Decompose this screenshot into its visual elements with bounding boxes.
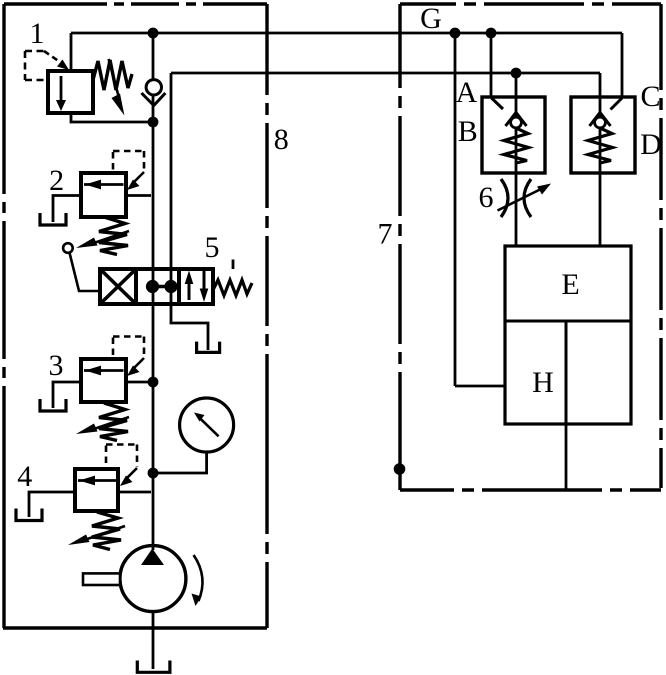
ball of valve D [595, 117, 606, 128]
wire: drop bus to pilot box A [490, 33, 493, 97]
pilot valve box A/B [482, 97, 545, 173]
reducing valve 4 [16, 445, 151, 550]
svg-text:6: 6 [479, 181, 494, 214]
svg-text:A: A [456, 76, 478, 109]
junction: top bus / H feed [451, 29, 459, 37]
wire: valve D outlet to block E [599, 173, 602, 246]
wire: main pressure line [152, 33, 155, 550]
wire: valve B outlet to throttle and block E [515, 173, 518, 246]
svg-text:3: 3 [49, 349, 64, 382]
svg-text:5: 5 [205, 231, 220, 264]
svg-text:4: 4 [17, 460, 32, 493]
junction: valve 1 outlet / main line [149, 118, 157, 126]
reducing valve 3 [40, 337, 151, 441]
svg-text:8: 8 [274, 123, 289, 156]
svg-text:D: D [640, 128, 662, 161]
enclosure 8 (left station boundary, chain line) [3, 4, 267, 628]
junction: gauge tap / main line [149, 469, 157, 477]
directional valve 5 [63, 243, 252, 304]
relief valve 1 [25, 51, 151, 122]
enclosure 7 (right station boundary, chain line) [400, 4, 661, 490]
wire: block H drain [565, 424, 568, 490]
svg-text:1: 1 [30, 17, 45, 50]
ball of valve B [511, 117, 522, 128]
wire: center feed of pilot valve D [599, 73, 602, 173]
wire: feed line to block H (horizontal) [455, 385, 505, 388]
spring of valve B [504, 128, 529, 163]
throttle valve 6 [498, 179, 552, 217]
svg-text:B: B [458, 115, 478, 148]
divider E/H [505, 320, 631, 323]
pilot valve box C/D [571, 97, 635, 173]
pilot stub C [611, 98, 623, 110]
wire: drop from second bus to valve 5 pilot port [170, 73, 173, 304]
pressure gauge [153, 398, 234, 473]
seat of valve D [590, 113, 611, 127]
wire: second bus line [171, 72, 600, 75]
pilot stub A [492, 98, 504, 109]
svg-text:E: E [561, 268, 579, 301]
svg-text:G: G [420, 2, 442, 35]
wire: feed line to block H (vertical) [454, 33, 457, 386]
tank: valve 5 drain [197, 342, 220, 353]
seat of valve B [506, 113, 527, 127]
wire: valve 5 drain [171, 304, 208, 350]
wire: pump suction line [152, 612, 155, 669]
junction: top bus / pilot A drop [487, 29, 495, 37]
wire: riser from valve 1 to top bus [70, 33, 73, 71]
wire: center feed of pilot valve B [515, 73, 518, 173]
wire: drop from top bus to pilot box C [621, 33, 624, 97]
divider inside H [565, 321, 568, 424]
reducing valve 2 [40, 151, 151, 255]
junction: main line / top bus [149, 29, 157, 37]
wire: top bus line (node G bus) [71, 32, 622, 35]
hydraulic pump [83, 546, 203, 612]
block E / H outline [505, 246, 631, 424]
svg-text:C: C [640, 80, 660, 113]
spring of valve D [588, 128, 613, 163]
check valve (on main line) [142, 80, 166, 106]
svg-text:H: H [532, 366, 554, 399]
svg-text:7: 7 [378, 218, 393, 251]
junction: valve 3 / main line [149, 378, 157, 386]
svg-text:2: 2 [49, 164, 64, 197]
junction: second bus / valve B center [512, 69, 520, 77]
junction dot on enclosure 7 border [395, 465, 404, 474]
tank: reservoir [137, 661, 170, 673]
